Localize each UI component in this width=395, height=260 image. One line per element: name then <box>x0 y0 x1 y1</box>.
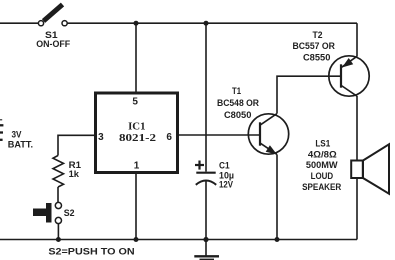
node: top rail / C1 junction <box>204 21 209 26</box>
wire: C1 negative plate to bottom rail <box>205 181 207 240</box>
wire: top rail to C1 positive plate <box>205 23 207 171</box>
svg-text:5: 5 <box>132 96 138 107</box>
svg-text:BC557 OR: BC557 OR <box>292 41 335 52</box>
svg-text:C8050: C8050 <box>224 110 252 121</box>
node: top rail / IC1 pin 5 junction <box>134 21 139 26</box>
svg-text:1k: 1k <box>69 169 80 180</box>
switch S2 (push button) <box>33 202 62 223</box>
svg-text:S2=PUSH TO ON: S2=PUSH TO ON <box>48 246 134 257</box>
node: C1 / ground / bottom rail junction <box>203 237 208 242</box>
svg-text:BC548 OR: BC548 OR <box>217 98 259 109</box>
svg-text:C8550: C8550 <box>303 53 331 64</box>
transistor Q1 (T1, NPN BC548/C8050) <box>248 114 288 155</box>
svg-text:T2: T2 <box>313 30 323 41</box>
wire: bottom rail <box>0 239 357 241</box>
svg-text:SPEAKER: SPEAKER <box>302 182 341 193</box>
switch S1 <box>38 5 67 26</box>
svg-text:12V: 12V <box>219 179 234 190</box>
node: T1 emitter / bottom rail junction <box>275 237 280 242</box>
svg-text:1: 1 <box>134 160 140 171</box>
svg-text:LOUD: LOUD <box>311 171 334 182</box>
svg-text:LS1: LS1 <box>315 139 330 150</box>
svg-text:8021-2: 8021-2 <box>119 133 156 144</box>
svg-text:IC1: IC1 <box>128 122 145 133</box>
svg-text:BATT.: BATT. <box>8 139 33 150</box>
ground <box>194 240 219 260</box>
svg-text:6: 6 <box>166 132 172 143</box>
speaker LS1 symbol <box>351 144 389 193</box>
wire: top rail down to T2 emitter <box>356 23 358 56</box>
node: IC1 pin 1 / bottom rail junction <box>134 237 139 242</box>
battery BT1 (3V, plates clipped at left edge) <box>0 120 3 140</box>
svg-text:S2: S2 <box>64 208 75 219</box>
svg-text:3: 3 <box>98 132 104 143</box>
wire: battery + to switch S1 (top rail left) <box>0 22 39 24</box>
wire: top rail to IC1 pin 5 <box>135 23 137 93</box>
wire: IC1 pin 6 to T1 base <box>177 134 260 136</box>
IC U1 (IC1 8021-2) body <box>96 93 178 173</box>
svg-text:500MW: 500MW <box>306 160 338 171</box>
wire: T1 collector up and right to T2 base <box>277 76 341 113</box>
wire: T2 collector down past LS1 to bottom rail <box>356 96 358 240</box>
wire: R1 to S2 <box>57 187 59 202</box>
svg-text:4Ω/8Ω: 4Ω/8Ω <box>308 149 337 160</box>
wire: S2 to bottom rail <box>57 224 59 240</box>
node: S2 / bottom rail junction <box>56 237 61 242</box>
transistor Q2 (T2, PNP BC557/C8550) <box>329 56 369 96</box>
wire: S1 to top-right corner (top rail) <box>67 22 357 24</box>
wire: T1 emitter to bottom rail <box>276 154 278 239</box>
wire: IC1 pin 1 to bottom rail <box>135 173 137 240</box>
svg-text:ON-OFF: ON-OFF <box>36 39 70 50</box>
svg-text:T1: T1 <box>232 86 242 97</box>
capacitor C1 <box>195 161 216 185</box>
wire: IC1 pin 3 to R1 <box>58 135 94 155</box>
resistor R1 <box>53 156 64 188</box>
